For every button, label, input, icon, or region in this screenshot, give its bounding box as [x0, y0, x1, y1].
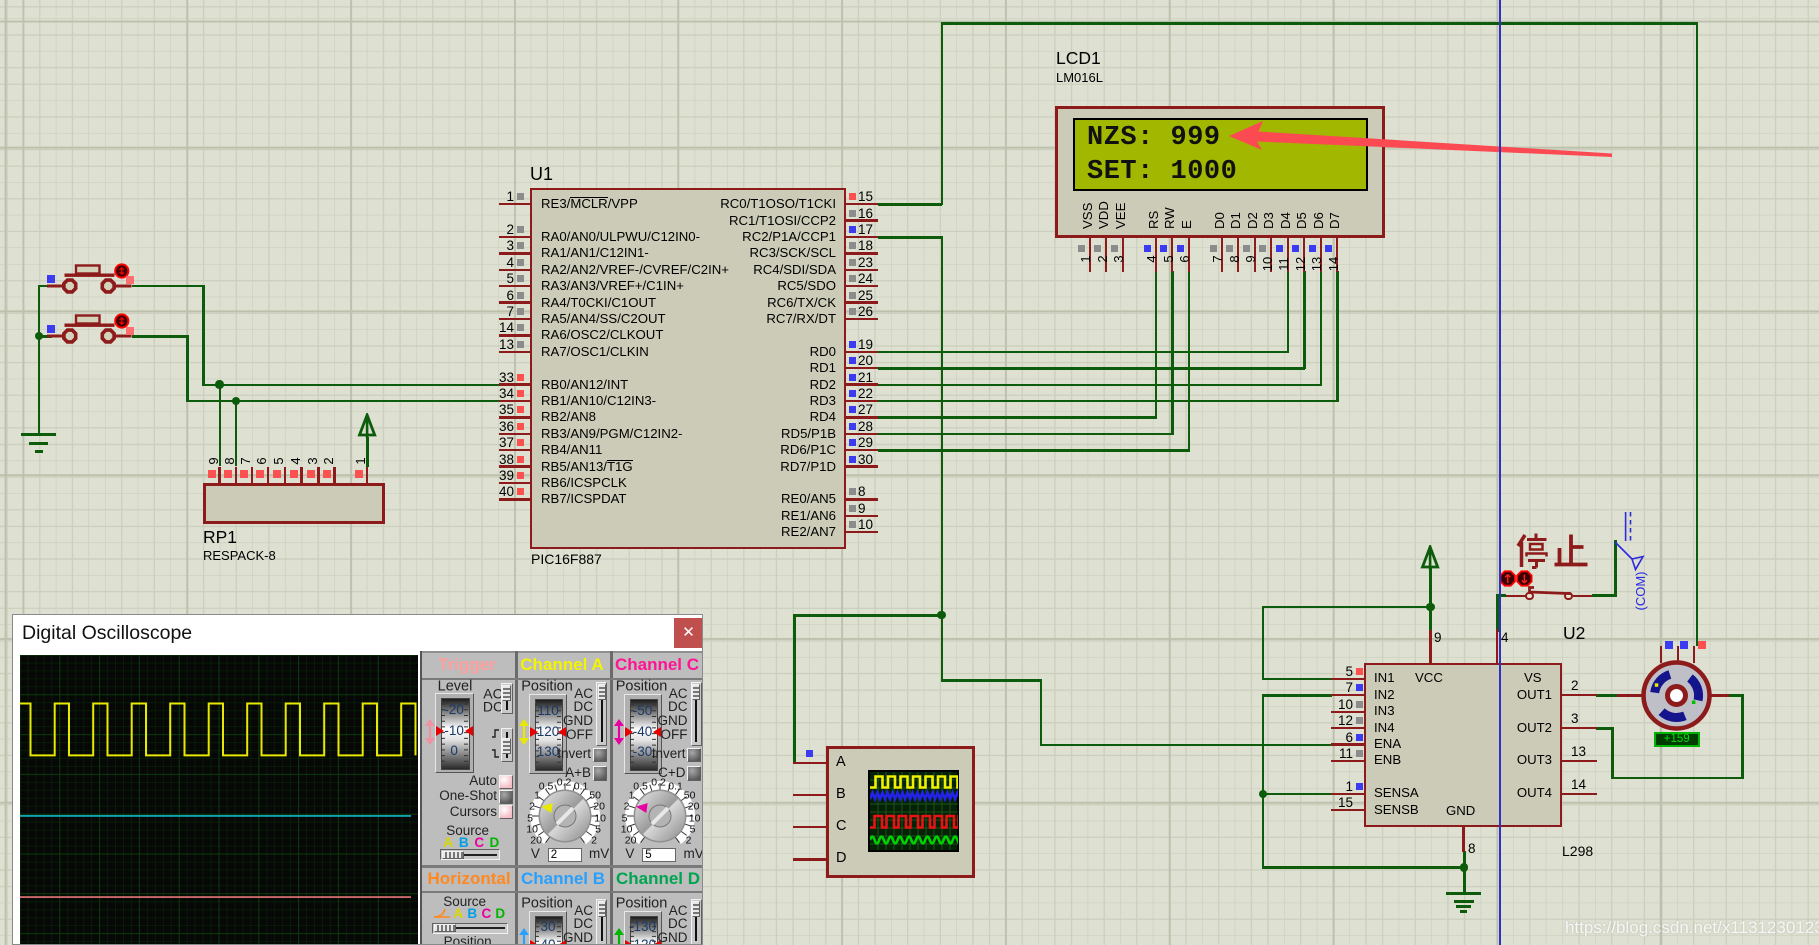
wire IN1 top horizontal: [1262, 606, 1432, 609]
wire LCD pin 6 vertical: [1188, 271, 1191, 451]
wire OUT2 wire d: [1741, 694, 1744, 779]
wire SENSA horizontal: [1262, 793, 1332, 796]
wire RD row 11 horizontal: [878, 384, 1322, 387]
wire RP1 pin1 riser: [366, 437, 369, 467]
motor driver U2 L298: [0, 0, 1819, 1]
wire ENA horizontal: [1040, 744, 1333, 747]
wire button1 down: [202, 285, 205, 386]
wire RC2 to ENA down: [1040, 679, 1043, 745]
wire IN2 horizontal: [1262, 694, 1332, 697]
wire U2 GND down: [1463, 851, 1466, 894]
wire RD row 15 horizontal: [878, 449, 1190, 452]
power symbol (U2 VCC): [1418, 545, 1442, 571]
wire VS vertical: [1496, 594, 1499, 632]
motor value label +159: [1654, 732, 1701, 748]
wire RP1 pin9 riser: [219, 384, 222, 467]
annotation red arrow: [1225, 115, 1617, 163]
wire button2 down: [186, 335, 189, 402]
wire IN1 riser: [1262, 606, 1265, 680]
wire RD row 12 horizontal: [878, 400, 1338, 403]
ground symbol (U2 GND): [0, 0, 1819, 1]
power symbol (RP1 pin1): [355, 413, 379, 439]
wire top bus down to motor: [1696, 22, 1699, 646]
wire LCD pin 14 vertical: [1336, 271, 1339, 402]
virtual oscilloscope graph component: [0, 0, 1819, 1]
wire top bus horizontal: [941, 22, 1698, 25]
wire VCC vertical: [1429, 568, 1432, 631]
resistor pack RP1 RESPACK-8: [0, 0, 1819, 1]
wire RC2 riser down: [941, 236, 944, 681]
wire RD row 14 horizontal: [878, 433, 1173, 436]
push button S1: [0, 0, 1819, 2]
wire RC0 pin15 horizontal: [878, 203, 942, 206]
wire RD row 13 horizontal: [878, 416, 1157, 419]
push button S2: [0, 0, 1819, 2]
wire RP1 pin8 riser: [235, 400, 238, 467]
wire switch left wire: [1496, 594, 1506, 597]
wire IN1 horizontal: [1262, 678, 1332, 681]
wire LCD pin 12 vertical: [1303, 271, 1306, 369]
wire RB0 row horizontal: [202, 384, 500, 387]
wire GND bottom horizontal: [1262, 866, 1465, 869]
oscilloscope instrument window: [12, 614, 703, 945]
wire motor right wire: [1728, 694, 1744, 697]
wire button1 left: [39, 285, 52, 288]
wire RD row 10 horizontal: [878, 367, 1305, 370]
wire scope A branch down: [793, 614, 796, 763]
wire LCD pin 13 vertical: [1320, 271, 1323, 386]
watermark: [1565, 919, 1819, 937]
node junction dots: [937, 611, 945, 619]
LCD display LCD1 LM016L: [0, 0, 1819, 1]
motor (stepper/servo): [0, 0, 1819, 2]
wire switch right wire: [1592, 594, 1617, 597]
wire button2 left: [39, 335, 52, 338]
wire IN2-GND vertical: [1262, 694, 1265, 868]
wire OUT2 wire a: [1596, 727, 1613, 730]
wire OUT2 wire c: [1611, 777, 1743, 780]
wire RB1 row horizontal: [186, 400, 500, 403]
wire button1 right: [132, 285, 204, 288]
wire RC0 to top bus riser: [941, 22, 944, 205]
wire RC2 to ENA horizontal 1: [941, 679, 1042, 682]
wire RC2 pin17 horizontal: [878, 236, 942, 239]
wire button2 right: [132, 335, 188, 338]
wire switch riser: [1614, 540, 1617, 596]
wire OUT2 wire b: [1611, 727, 1614, 779]
wire LCD pin 11 vertical: [1287, 271, 1290, 353]
sheet border line: [1499, 0, 1501, 945]
stop push button 停止: [0, 0, 1819, 2]
ground symbol (buttons): [0, 0, 1819, 1]
wire ground riser: [38, 285, 41, 435]
wire OUT1 wire: [1596, 694, 1618, 697]
wire LCD pin 4 vertical: [1155, 271, 1158, 418]
microcontroller U1 PIC16F887: [0, 0, 1819, 1]
wire scope A branch horizontal: [793, 614, 942, 617]
wire RD row 9 horizontal: [878, 351, 1289, 354]
wire LCD pin 5 vertical: [1171, 271, 1174, 435]
